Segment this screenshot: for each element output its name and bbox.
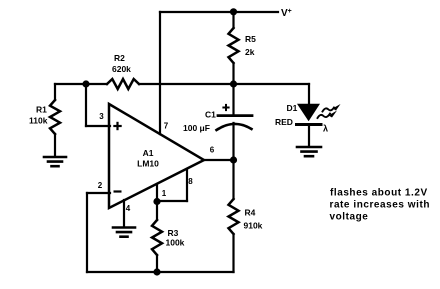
- svg-text:100 μF: 100 μF: [183, 123, 210, 133]
- svg-text:R5: R5: [245, 34, 256, 44]
- svg-text:R3: R3: [168, 228, 179, 238]
- svg-text:A1: A1: [143, 148, 154, 158]
- svg-text:voltage: voltage: [330, 212, 369, 223]
- svg-text:3: 3: [99, 112, 104, 121]
- svg-text:λ: λ: [323, 124, 328, 134]
- svg-text:R1: R1: [36, 105, 47, 115]
- svg-text:910k: 910k: [244, 221, 263, 231]
- svg-text:R4: R4: [245, 208, 256, 218]
- svg-text:2k: 2k: [245, 47, 255, 57]
- svg-text:620k: 620k: [112, 64, 131, 74]
- svg-text:1: 1: [162, 189, 167, 198]
- svg-text:7: 7: [164, 122, 169, 131]
- svg-text:rate increases with: rate increases with: [330, 200, 431, 211]
- svg-text:D1: D1: [287, 103, 298, 113]
- svg-text:4: 4: [126, 204, 131, 213]
- svg-text:110k: 110k: [29, 116, 48, 126]
- svg-text:LM10: LM10: [137, 159, 159, 169]
- svg-text:2: 2: [98, 181, 103, 190]
- svg-text:flashes about 1.2V: flashes about 1.2V: [330, 188, 428, 199]
- svg-text:RED: RED: [275, 117, 293, 127]
- svg-text:6: 6: [210, 146, 215, 155]
- svg-text:8: 8: [188, 177, 193, 186]
- svg-text:R2: R2: [114, 53, 125, 63]
- svg-text:C1: C1: [205, 110, 216, 120]
- svg-text:100k: 100k: [166, 238, 185, 248]
